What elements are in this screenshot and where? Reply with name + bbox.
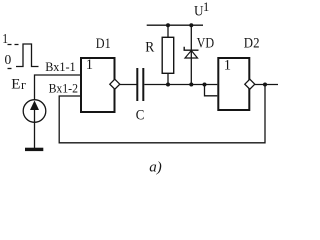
dashed level-1 line <box>8 44 19 46</box>
junction dot rail-diode <box>189 23 193 27</box>
source arrow <box>30 101 39 111</box>
resistor R body <box>162 37 174 73</box>
junction dot D2 input branch <box>203 83 207 87</box>
source arrow wire <box>34 103 36 122</box>
diode VD wire <box>190 25 192 84</box>
wire D1 output to capacitor <box>120 84 137 86</box>
capacitor C right plate <box>142 68 144 101</box>
wire source to ground <box>34 122 36 148</box>
junction dot wire-diode <box>189 83 193 87</box>
svg-text:а): а) <box>149 159 162 175</box>
diode VD triangle <box>185 51 198 59</box>
wire D2 second input branch <box>205 85 218 96</box>
pulse waveform <box>16 44 39 67</box>
resistor R leads <box>167 25 169 84</box>
svg-text:R: R <box>145 40 154 56</box>
svg-text:1: 1 <box>2 31 8 46</box>
wire capacitor to D2 input <box>144 84 217 86</box>
source E1 circle <box>23 100 46 123</box>
gate D1 inversion diamond <box>110 79 120 89</box>
capacitor C left plate <box>136 68 138 101</box>
svg-text:D2: D2 <box>244 36 260 52</box>
gate D1 rectangle <box>81 58 115 112</box>
svg-text:Е: Е <box>11 76 20 92</box>
dashed level-0 line <box>8 68 12 70</box>
svg-text:Вх1-1: Вх1-1 <box>45 59 75 74</box>
wire from source up to input Вх1-1 <box>35 75 81 100</box>
diode VD cathode bar with zener tick <box>184 47 198 51</box>
wire input Вх1-2 and feedback loop <box>59 85 265 143</box>
svg-text:1: 1 <box>86 57 93 73</box>
gate D2 inversion diamond <box>245 79 255 89</box>
svg-text:1: 1 <box>203 0 209 14</box>
wire D2 output <box>255 84 278 86</box>
top supply rail <box>147 24 203 26</box>
svg-text:0: 0 <box>5 52 12 67</box>
svg-text:VD: VD <box>197 36 215 52</box>
svg-text:1: 1 <box>224 58 231 74</box>
gate D2 rectangle <box>218 58 249 110</box>
ground <box>25 148 43 151</box>
svg-text:С: С <box>136 108 145 124</box>
junction dot wire-resistor <box>166 83 170 87</box>
svg-text:Вх1-2: Вх1-2 <box>49 81 78 96</box>
svg-text:г: г <box>21 78 26 92</box>
junction dot rail-resistor <box>166 23 170 27</box>
svg-text:D1: D1 <box>96 36 111 52</box>
junction dot D2 output feedback <box>263 83 267 87</box>
